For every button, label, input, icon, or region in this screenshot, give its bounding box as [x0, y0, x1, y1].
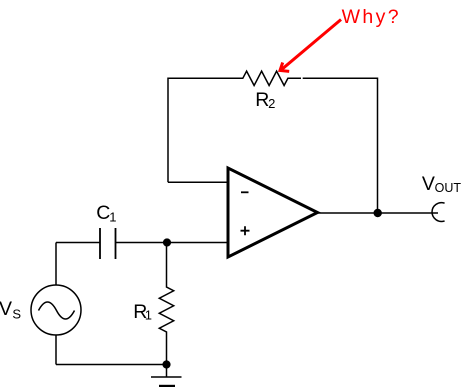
svg-text:Why?: Why? — [342, 6, 401, 28]
svg-text:V: V — [422, 173, 435, 195]
svg-text:V: V — [0, 298, 12, 320]
svg-text:2: 2 — [268, 96, 275, 111]
svg-text:S: S — [12, 307, 21, 322]
svg-text:1: 1 — [145, 307, 152, 322]
svg-text:C: C — [96, 202, 110, 224]
svg-text:1: 1 — [109, 209, 116, 224]
svg-text:OUT: OUT — [435, 181, 462, 195]
